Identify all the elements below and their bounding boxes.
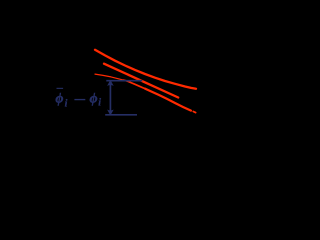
svg-text:i: i (98, 98, 101, 109)
svg-text:ϕ: ϕ (90, 92, 98, 107)
svg-text:i: i (65, 98, 68, 109)
svg-text:ϕ: ϕ (55, 92, 63, 107)
